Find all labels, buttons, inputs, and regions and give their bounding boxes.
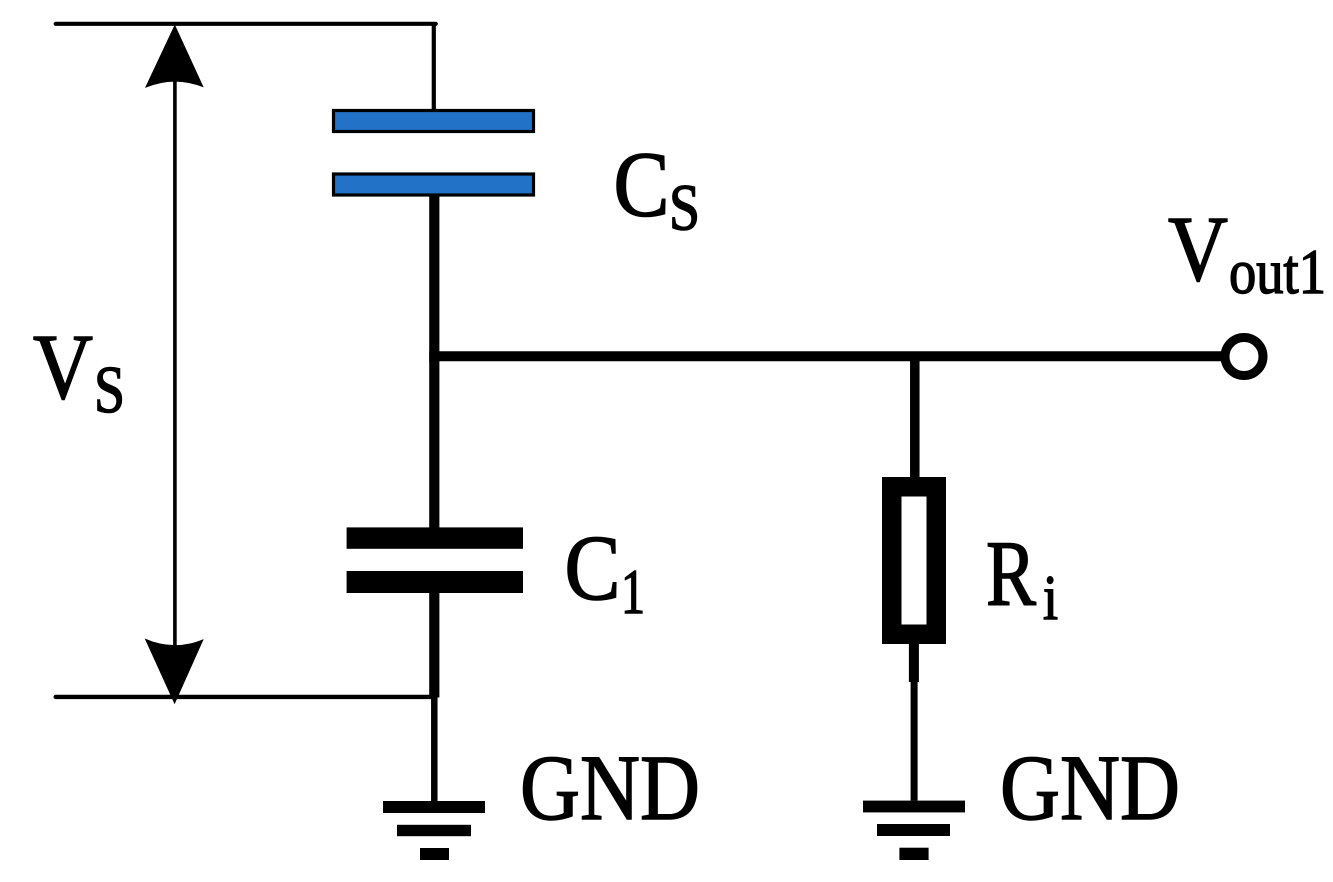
Vs arrowhead up <box>145 25 204 88</box>
svg-text:GND: GND <box>520 737 700 840</box>
wire: thin drop to right ground <box>911 681 918 801</box>
Vs arrowhead down <box>145 639 204 705</box>
ground symbol right: bar 2 <box>877 824 950 836</box>
svg-text:i: i <box>1043 562 1058 633</box>
svg-text:1: 1 <box>621 556 645 627</box>
Vs measurement arrow shaft <box>173 60 177 670</box>
ground symbol left: bar 1 <box>383 801 485 813</box>
svg-text:S: S <box>669 172 700 245</box>
wire: resistor bottom stub <box>909 641 919 682</box>
wire: top horizontal from Vs arrow to Cs drop <box>56 22 436 26</box>
svg-text:out1: out1 <box>1229 236 1326 307</box>
ground symbol left: bar 2 <box>397 825 471 836</box>
svg-text:S: S <box>94 353 125 427</box>
wire: bottom horizontal from Vs arrow to ground node <box>56 695 434 699</box>
resistor Ri body <box>892 487 937 635</box>
capacitor C1 bottom plate <box>347 571 523 593</box>
wire: node down to resistor Ri <box>910 356 920 478</box>
capacitor C1 top plate <box>347 527 523 548</box>
ground symbol right: bar 3 <box>899 848 928 860</box>
wire: thin drop to left ground <box>431 697 438 801</box>
ground symbol left: bar 3 <box>420 848 449 860</box>
wire: C1 bottom plate down to ground node <box>429 592 439 698</box>
output terminal circle Vout1 <box>1225 338 1263 376</box>
svg-text:V: V <box>33 316 93 419</box>
svg-text:C: C <box>614 134 670 237</box>
svg-text:V: V <box>1168 198 1228 301</box>
svg-text:C: C <box>565 517 621 620</box>
svg-text:R: R <box>986 523 1036 626</box>
svg-text:GND: GND <box>1000 737 1180 840</box>
wire: vertical drop from top wire to Cs top plate <box>432 22 436 110</box>
capacitor CS top plate <box>334 111 534 132</box>
wire: mid horizontal node to output terminal <box>429 351 1222 361</box>
capacitor CS bottom plate <box>334 174 534 195</box>
wire: Cs bottom plate down through node to C1 top plate <box>429 196 439 528</box>
ground symbol right: bar 1 <box>863 801 965 813</box>
